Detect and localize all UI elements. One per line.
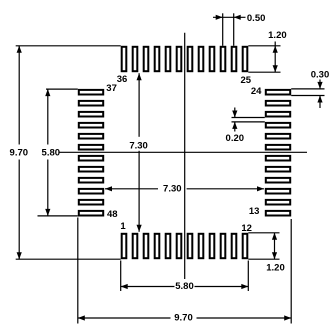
dim 5.80 left: extension line bottom <box>38 215 78 217</box>
svg-text:37: 37 <box>106 83 117 94</box>
svg-text:1.20: 1.20 <box>266 263 285 274</box>
top pad row pins 36-25 <box>122 47 248 71</box>
dim 0.30: extension line bottom <box>291 95 324 97</box>
dim 0.30: arrows <box>317 80 322 109</box>
dim 1.20 top-right: extension line bottom <box>248 71 280 73</box>
horizontal centerline <box>60 151 308 153</box>
svg-text:7.30: 7.30 <box>163 184 182 195</box>
dim 5.80 left: dimension line with arrows <box>45 89 50 216</box>
dim 0.30: extension line top <box>291 88 324 90</box>
svg-text:48: 48 <box>107 209 118 220</box>
vertical centerline <box>184 33 186 279</box>
svg-text:24: 24 <box>251 86 262 97</box>
dim 5.80 bottom: extension line right <box>247 261 249 292</box>
dim 9.70 left: extension line bottom <box>16 258 121 260</box>
bottom pad row pins 1-12 <box>122 234 248 258</box>
svg-text:9.70: 9.70 <box>10 147 29 158</box>
svg-text:12: 12 <box>241 223 252 234</box>
dim 7.30 horizontal: dimension line with arrows <box>105 186 264 191</box>
dim 9.70 left: extension line top <box>16 45 121 47</box>
dim 9.70 left: dimension line with arrows <box>17 46 22 259</box>
dim 0.50 pitch: extension line left (pad 27 center) <box>222 13 224 46</box>
svg-text:0.20: 0.20 <box>226 133 245 144</box>
right pad column pins 24-13 <box>266 90 290 216</box>
dim 0.20: extension line top (pad 22 bottom) <box>232 117 265 119</box>
svg-text:0.30: 0.30 <box>311 70 330 81</box>
svg-text:5.80: 5.80 <box>42 147 61 158</box>
dim 1.20 bottom-right: dimension line with arrows <box>272 233 277 259</box>
svg-text:13: 13 <box>249 206 260 217</box>
dim 9.70 bottom: extension line right <box>290 219 292 324</box>
svg-text:1.20: 1.20 <box>268 30 287 41</box>
dim 5.80 bottom: extension line left <box>120 261 122 292</box>
dim 7.30 vertical: dimension line with arrows <box>137 73 142 232</box>
dim 9.70 bottom: dimension line with arrows <box>78 315 291 320</box>
svg-text:9.70: 9.70 <box>174 312 193 323</box>
dim 0.50 pitch: extension line right (pad 26 center) <box>233 13 235 46</box>
svg-text:0.50: 0.50 <box>247 13 266 24</box>
svg-text:36: 36 <box>117 74 128 85</box>
dim 1.20 top-right: extension line top <box>248 45 280 47</box>
svg-text:7.30: 7.30 <box>129 141 148 152</box>
dim 9.70 bottom: extension line left <box>77 218 79 324</box>
dim 5.80 left: extension line top <box>46 88 78 90</box>
svg-text:25: 25 <box>241 75 252 86</box>
dim 1.20 bottom-right: extension line bottom <box>248 258 279 260</box>
dim 0.20: arrows <box>232 108 237 132</box>
svg-text:5.80: 5.80 <box>175 281 194 292</box>
dim 5.80 bottom: dimension line with arrows <box>121 284 249 289</box>
svg-text:1: 1 <box>120 221 126 232</box>
dim 1.20 top-right: dimension line with arrows <box>273 42 278 73</box>
dim 0.50 pitch: arrows <box>213 15 246 20</box>
left pad column pins 37-48 <box>79 90 103 216</box>
dim 1.20 bottom-right: extension line top <box>248 232 279 234</box>
dim 0.20: extension line bottom (pad 21 top) <box>232 121 265 123</box>
